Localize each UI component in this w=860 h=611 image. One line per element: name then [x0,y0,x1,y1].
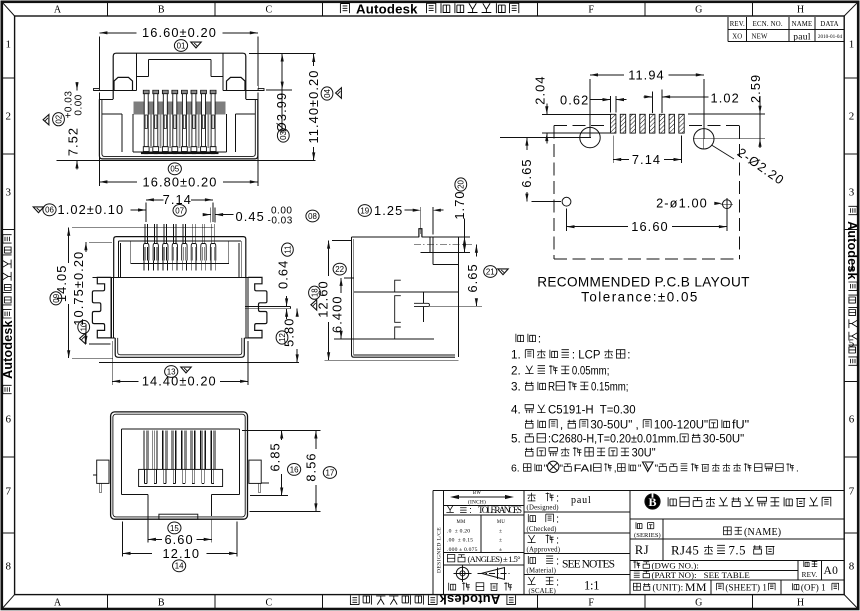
side view base line [325,359,459,361]
watermark right edge rotated [845,206,859,365]
svg-text:04: 04 [323,89,332,98]
middle column rows designed checked approved material scale [524,493,630,596]
svg-text:20: 20 [457,180,466,189]
svg-text:": " [655,464,659,475]
bottom view inner opening [122,429,240,494]
svg-text:5: 5 [849,338,855,350]
svg-text:1.02±0.10: 1.02±0.10 [58,202,125,217]
svg-text:1: 1 [5,39,11,51]
svg-text:fU": fU" [732,420,749,432]
side view top nub [419,229,422,238]
front view plug opening [137,54,223,91]
svg-text:2-ø1.00: 2-ø1.00 [656,196,708,211]
bottom view side tabs [93,460,269,493]
bottom view comb block [139,469,223,486]
svg-text:NEW: NEW [752,34,768,41]
note 5 continued [525,448,533,456]
svg-text:10: 10 [80,322,89,331]
svg-text:8.56: 8.56 [304,452,319,481]
svg-text:(PART NO): SEE TABLE: (PART NO): SEE TABLE [652,570,750,580]
svg-text:16.60±0.20: 16.60±0.20 [142,25,217,40]
svg-text:,: , [560,420,567,432]
front view dimension 16.80 +/-0.20 [99,93,257,190]
svg-text:14: 14 [175,562,184,571]
svg-text:MM: MM [457,520,466,525]
pcb layout dashed board outline [554,125,740,258]
svg-text:3: 3 [5,187,11,199]
top view dimension 0.45 with tolerance and balloon 08 [203,206,319,227]
svg-text:6.60: 6.60 [164,532,193,547]
note 6 with FAI symbol and flag [511,461,799,474]
tolerance box arrow symbol [443,491,524,506]
svg-text:": " [544,464,548,475]
svg-text:DATA: DATA [820,21,838,28]
revision table top right [728,17,844,42]
front view upper shell [113,53,246,99]
svg-text:17: 17 [326,468,335,477]
side view internal lines [354,280,459,339]
bottom view dimension 6.85 and balloon 16 [242,431,321,496]
svg-text:6: 6 [5,414,11,426]
svg-text:11.40±0.20: 11.40±0.20 [306,69,321,143]
svg-text:B: B [158,598,165,609]
svg-text::C2680-H,T=0.20±0.01mm.: :C2680-H,T=0.20±0.01mm. [548,434,679,446]
front view flag and balloon 02 [43,115,49,125]
svg-text:10.75±0.20: 10.75±0.20 [71,251,86,326]
svg-text:7.14: 7.14 [632,152,661,167]
svg-text:7: 7 [849,486,855,498]
svg-text:RECOMMENDED P.C.B LAYOUT: RECOMMENDED P.C.B LAYOUT [537,275,750,290]
svg-text:09: 09 [52,293,61,302]
svg-text:,: , [614,464,617,475]
svg-text:1.: 1. [511,350,524,362]
pcb layout dimension 1.02 [644,90,740,114]
front view dimension 7.52 with tolerance [64,82,85,170]
pcb layout dimension 16.60 [567,209,727,235]
svg-text:": " [638,464,642,475]
top view head outline [114,237,246,278]
svg-text:C5191-H T=0.30: C5191-H T=0.30 [548,405,636,417]
svg-text:01: 01 [177,41,186,50]
svg-text::: : [556,576,559,588]
svg-text:(SHEET) 1: (SHEET) 1 [725,583,769,593]
svg-text:0.64: 0.64 [276,260,291,289]
svg-text:0.00: 0.00 [74,94,85,119]
front view dimension 16.60 +/-0.20 [99,25,257,86]
angles tolerance row [443,554,524,565]
third angle view caption [449,583,456,591]
svg-text:XO: XO [732,34,742,41]
bottom view dimension 12.10 and balloon 14 [123,522,238,572]
svg-text:(OF) 1: (OF) 1 [801,583,828,593]
svg-text:BW: BW [473,491,481,496]
pcb layout holes dia 1.00 [562,197,733,210]
svg-text:3.: 3. [511,382,524,394]
svg-text:Tolerance:±0.05: Tolerance:±0.05 [581,290,699,305]
svg-text:G: G [695,598,702,609]
svg-text:REV.: REV. [730,21,745,28]
svg-text:6.65: 6.65 [519,158,534,187]
svg-text:1: 1 [849,39,855,51]
svg-text:7: 7 [5,486,11,498]
svg-text:NAME: NAME [792,21,813,28]
top view dimension 14.40 +/-0.20 [112,341,248,389]
svg-text:-0.03: -0.03 [268,215,293,226]
svg-text:16: 16 [290,465,299,474]
svg-text:7.5: 7.5 [729,544,747,558]
svg-text:F: F [588,5,594,16]
svg-text:FAI: FAI [574,464,593,475]
svg-text:0.05mm;: 0.05mm; [572,366,610,378]
front view balloon 03 [277,129,289,142]
top view label 1.02 +/-0.10 with flag and balloon 06 [33,202,146,217]
svg-text:Autodesk: Autodesk [356,2,418,17]
svg-text:Autodesk: Autodesk [1,320,15,379]
border zone column dividers [108,2,753,609]
front view comb slots between pins [150,115,209,149]
svg-text:±: ± [499,528,503,534]
series and name row [630,519,844,561]
pcb layout title text [537,275,750,305]
svg-text:3: 3 [849,187,855,199]
svg-text:100-120U": 100-120U" [654,420,708,432]
third angle projection symbol [454,565,510,582]
bottom view lower cutout [122,494,240,519]
pcb layout dimension 7.14 pad span [613,136,681,167]
svg-text:07: 07 [175,206,184,215]
svg-text:7.52: 7.52 [66,127,81,156]
top view solder tab strip right [245,306,291,308]
svg-text:21: 21 [486,267,495,276]
svg-text:(Checked): (Checked) [527,526,557,533]
svg-text:19: 19 [360,206,369,215]
svg-text:H: H [797,5,804,16]
svg-text:REV.: REV. [802,571,818,579]
svg-text:0.15mm;: 0.15mm; [591,382,629,394]
front view contact pins 1-8 [143,90,216,154]
svg-text:±: ± [499,538,503,544]
notes header [516,334,524,342]
svg-text:15: 15 [170,524,179,533]
note 4 continued [525,420,533,428]
svg-text:05: 05 [170,165,179,174]
svg-text:2.59: 2.59 [748,74,763,103]
svg-text::: : [538,334,541,346]
svg-text:G: G [695,5,702,16]
side view dimension 1.25 and balloon 19 [358,203,443,235]
svg-text:6.65: 6.65 [465,263,480,292]
front view seating datum line [57,159,316,161]
top view dimension 14.05 [54,228,214,359]
svg-text:6.: 6. [511,464,523,475]
svg-text:1.25: 1.25 [374,203,403,218]
svg-text::: : [627,350,630,362]
pcb layout dimension 11.94 [590,67,704,139]
side view dimension 6.400 [330,278,355,339]
front view solder tab line with side tabs [94,85,265,90]
svg-text:: LCP: : LCP [572,350,604,362]
company name [668,497,676,506]
svg-text:DESIGNED L/CE: DESIGNED L/CE [437,527,443,573]
svg-text:F: F [588,598,594,609]
svg-text:paul: paul [571,495,591,506]
front view shell shadow band behind pins [134,102,226,115]
svg-text:A: A [54,5,62,16]
svg-text:(NAME): (NAME) [744,527,781,538]
svg-text:1.70: 1.70 [452,190,467,219]
top view dimension 5.80 and balloon 12 [276,309,299,363]
svg-text::: : [556,493,559,505]
pcb layout label 2-dia2.20 with leader [712,145,788,188]
side view dimension 1.70 and balloon 20 [452,178,467,253]
svg-text:Autodesk: Autodesk [845,221,859,280]
tolerance value mini table [443,515,524,553]
top view balloon 10 and flag [78,320,90,333]
tolerance box header [443,505,524,516]
svg-text:4.: 4. [511,405,524,417]
svg-text:H: H [797,598,804,609]
watermark top: Autodesk educational plot stamp [340,2,518,17]
top view balloon 13 and flag [165,366,178,378]
svg-text:12.10: 12.10 [163,546,201,561]
svg-text:1:1: 1:1 [584,579,600,593]
top view mid body with side wings [92,277,267,338]
svg-text:11.94: 11.94 [628,67,665,82]
svg-text::: : [556,555,559,567]
svg-text:0.62: 0.62 [560,93,589,108]
part name row RJ45 [630,539,844,558]
svg-text:2: 2 [849,111,855,123]
svg-text:13: 13 [167,367,176,376]
front view dimension 11.40 +/-0.20 [306,54,321,160]
top view dimension 0.64 and balloon 11 [276,243,294,319]
svg-text:12.60: 12.60 [316,280,331,318]
pcb layout dimension 6.65 [519,138,585,202]
svg-text:MU: MU [497,520,505,525]
svg-text:C: C [265,598,272,609]
svg-text:6: 6 [849,414,855,426]
svg-text:11: 11 [283,245,292,253]
side view dimension 6.65 with balloon 21 and flag [429,245,508,307]
svg-text:6.400: 6.400 [330,295,345,333]
top view base datum line [99,361,299,363]
pcb layout label 2-dia1.00 [656,196,722,211]
title block outline [433,490,844,594]
svg-text:6.85: 6.85 [268,442,283,471]
top view pins 1-8 tips and barrels [144,224,216,271]
svg-text:SEE NOTES: SEE NOTES [562,559,615,571]
dwg no and part no rows [630,561,844,581]
units and sheet row [633,580,838,595]
svg-text:(SERIES): (SERIES) [634,532,661,539]
svg-text::: : [556,535,559,547]
svg-text:22: 22 [335,265,344,274]
svg-text:16.80±0.20: 16.80±0.20 [143,174,218,189]
watermark bottom rotated 180 [350,592,515,607]
bottom view dimension 8.56 and balloon 17 [250,431,337,512]
front view dimension dia 3.99 [249,54,316,133]
svg-text:TOLERANCES: TOLERANCES [478,505,522,515]
svg-text:12: 12 [278,333,287,342]
pcb layout dimension 2.04 [532,75,610,143]
svg-text:MM: MM [685,580,707,594]
svg-text:(Approved): (Approved) [527,547,561,554]
svg-text:30-50U" ,: 30-50U" , [590,420,642,432]
svg-text:.00 ± 0.15: .00 ± 0.15 [447,538,473,544]
svg-text:±: ± [499,547,503,553]
svg-text:2.04: 2.04 [532,75,547,104]
watermark left edge rotated [1,235,15,394]
pcb layout mounting holes dia 2.20 [500,127,765,149]
svg-text:8: 8 [849,561,855,573]
svg-text:2.: 2. [511,366,524,378]
svg-text:C: C [265,5,272,16]
svg-text:1.02: 1.02 [711,91,740,106]
svg-text:.000 ± 0.075: .000 ± 0.075 [447,547,478,553]
front view balloon 04 and flag [321,87,333,100]
front view side latch bumps [114,77,245,90]
svg-text:(UNIT):: (UNIT): [653,583,684,593]
svg-text:Ø3.99: Ø3.99 [274,92,289,132]
svg-text:(ANGLES) ± 1.5°: (ANGLES) ± 1.5° [468,554,522,564]
svg-text:A: A [54,598,62,609]
svg-text:14.40±0.20: 14.40±0.20 [142,374,217,389]
svg-text:16.60: 16.60 [631,219,669,234]
svg-text:30-50U": 30-50U" [703,434,744,446]
bottom view pin slots [143,431,215,470]
svg-text:RJ45: RJ45 [671,544,699,558]
side view dimension 12.60 and balloon 22 [316,241,353,361]
svg-text:8: 8 [5,561,11,573]
svg-text:.: . [796,464,799,475]
svg-text:2010-01-04: 2010-01-04 [818,34,843,40]
side view body outline [352,237,459,357]
top view balloon 07 [173,205,186,217]
svg-text:B: B [158,5,165,16]
border zone row dividers [2,78,858,533]
top view dimension 10.75 +/-0.20 [71,242,112,344]
svg-text:03: 03 [279,131,288,140]
svg-text:ECN. NO.: ECN. NO. [753,21,783,28]
svg-text:A0: A0 [823,565,838,577]
svg-text:": " [559,464,563,475]
bottom view dimension 6.60 and balloon 15 [148,497,212,547]
front view lower shell [99,99,257,159]
front view inner cavity [102,114,255,152]
svg-text:30U": 30U" [632,448,656,460]
svg-text:(Material): (Material) [527,568,557,575]
top view dimension 7.14 [146,192,213,222]
side view solder tab block [414,237,472,265]
pcb layout dimension 0.62 [560,93,626,113]
svg-text:5.: 5. [511,434,524,446]
svg-text:RJ: RJ [635,543,649,557]
svg-text::: : [556,514,559,526]
front view flag and balloon 01 [174,40,187,52]
top view balloon 09 [50,292,62,305]
svg-text:(Designed): (Designed) [527,505,559,512]
svg-text:06: 06 [45,206,54,215]
company logo [645,493,660,509]
svg-text:.0 ± 0.20: .0 ± 0.20 [447,528,470,534]
bottom view outer shell [111,412,248,519]
top view bottom section [97,338,262,357]
svg-text:Autodesk: Autodesk [439,592,500,607]
front view balloon 05 [168,163,181,175]
side view balloon 18 and flag [309,286,321,299]
svg-text:02: 02 [54,115,63,124]
svg-text:R: R [548,382,555,394]
svg-text:2: 2 [5,111,11,123]
svg-text:paul: paul [793,32,811,42]
svg-text:0.45: 0.45 [236,209,265,224]
front view cavity floor bar [141,152,219,154]
svg-text:08: 08 [308,212,317,221]
svg-text:(SCALE): (SCALE) [529,588,556,595]
pcb layout dimension 2.59 [688,74,765,148]
